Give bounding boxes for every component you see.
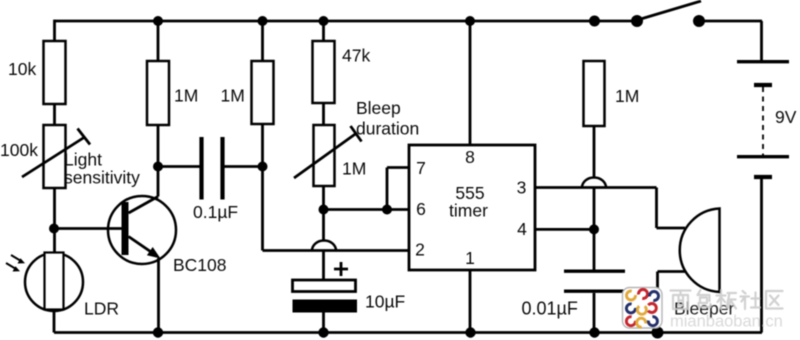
svg-text:LDR: LDR bbox=[84, 299, 119, 319]
svg-text:9V: 9V bbox=[775, 107, 797, 127]
svg-text:Bleep: Bleep bbox=[356, 98, 401, 118]
svg-text:100k: 100k bbox=[0, 140, 38, 160]
svg-text:10k: 10k bbox=[8, 59, 36, 79]
svg-text:6: 6 bbox=[416, 199, 426, 219]
svg-text:8: 8 bbox=[465, 147, 475, 167]
svg-text:7: 7 bbox=[416, 158, 426, 178]
svg-text:47k: 47k bbox=[342, 46, 370, 66]
svg-text:3: 3 bbox=[517, 178, 527, 198]
svg-text:duration: duration bbox=[356, 119, 419, 139]
svg-text:2: 2 bbox=[415, 240, 425, 260]
svg-text:1M: 1M bbox=[174, 86, 198, 106]
svg-text:mianbaoban.cn: mianbaoban.cn bbox=[670, 313, 783, 331]
svg-text:1M: 1M bbox=[342, 159, 366, 179]
svg-text:0.01µF: 0.01µF bbox=[522, 299, 578, 319]
svg-text:BC108: BC108 bbox=[173, 255, 227, 275]
svg-text:1M: 1M bbox=[221, 86, 245, 106]
svg-text:sensitivity: sensitivity bbox=[64, 168, 140, 188]
svg-text:10µF: 10µF bbox=[365, 292, 405, 312]
svg-text:Light: Light bbox=[64, 150, 102, 170]
svg-text:timer: timer bbox=[449, 201, 488, 221]
svg-text:1M: 1M bbox=[615, 86, 639, 106]
svg-text:0.1µF: 0.1µF bbox=[193, 202, 238, 222]
svg-text:4: 4 bbox=[517, 219, 527, 239]
svg-text:1: 1 bbox=[465, 248, 475, 268]
